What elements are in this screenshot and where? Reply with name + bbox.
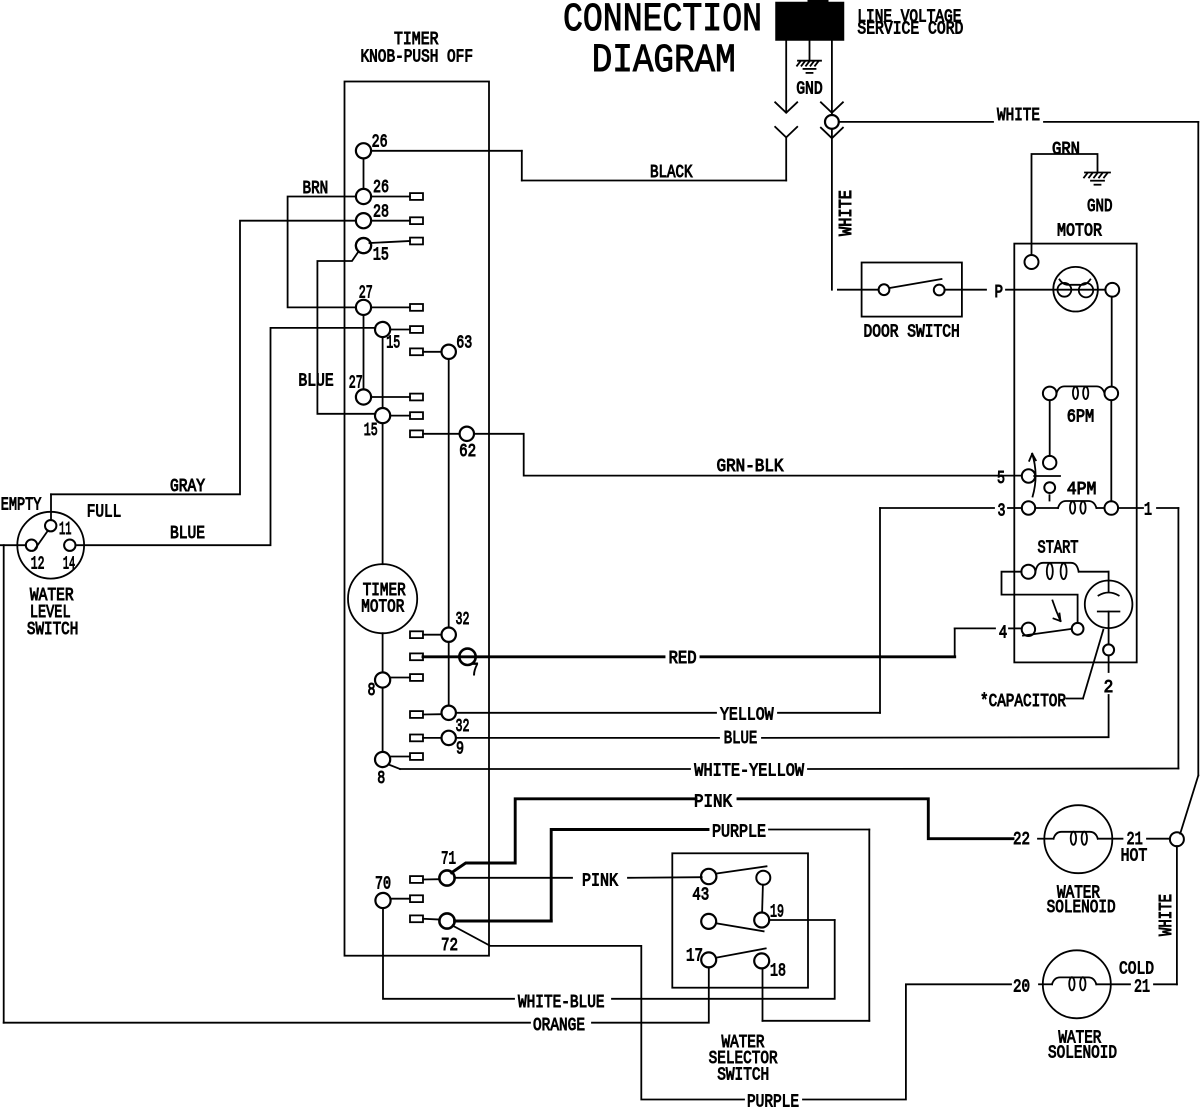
svg-text:DOOR SWITCH: DOOR SWITCH [864,323,960,343]
svg-text:GRAY: GRAY [170,477,205,497]
svg-text:21: 21 [1134,978,1150,998]
svg-text:SOLENOID: SOLENOID [1047,898,1116,918]
svg-text:BLUE: BLUE [170,524,205,544]
svg-text:COLD: COLD [1119,960,1154,980]
svg-text:71: 71 [441,850,456,870]
svg-text:PINK: PINK [582,872,618,892]
svg-text:26: 26 [372,133,388,153]
svg-text:PURPLE: PURPLE [712,823,766,843]
svg-text:70: 70 [375,875,391,895]
svg-text:SWITCH: SWITCH [717,1066,769,1086]
svg-text:11: 11 [59,520,71,540]
svg-text:9: 9 [456,740,464,760]
svg-text:BLUE: BLUE [298,372,333,392]
svg-text:ORANGE: ORANGE [533,1016,585,1036]
svg-text:START: START [1038,539,1079,559]
svg-text:8: 8 [377,769,385,789]
svg-text:43: 43 [692,886,709,906]
svg-text:26: 26 [373,178,389,198]
svg-text:8: 8 [368,681,376,701]
svg-text:27: 27 [359,284,373,304]
svg-text:SERVICE CORD: SERVICE CORD [857,20,963,40]
svg-text:PURPLE: PURPLE [747,1093,799,1108]
svg-text:SOLENOID: SOLENOID [1048,1044,1117,1064]
svg-text:32: 32 [456,610,470,630]
svg-text:5: 5 [997,469,1005,489]
svg-text:FULL: FULL [87,503,122,523]
svg-text:MOTOR: MOTOR [361,598,404,618]
svg-text:EMPTY: EMPTY [1,496,42,516]
svg-text:BLUE: BLUE [724,729,758,749]
svg-text:1: 1 [1144,501,1152,521]
svg-text:32: 32 [456,717,470,737]
svg-text:17: 17 [686,947,703,967]
svg-text:12: 12 [31,555,45,575]
svg-text:WHITE: WHITE [837,190,857,236]
svg-text:15: 15 [364,421,378,441]
svg-text:28: 28 [373,203,389,223]
svg-text:4PM: 4PM [1067,480,1097,500]
svg-text:4: 4 [999,624,1008,644]
svg-text:GND: GND [796,80,823,100]
svg-text:62: 62 [459,442,476,462]
svg-text:27: 27 [349,374,363,394]
svg-text:22: 22 [1013,830,1030,850]
svg-text:BRN: BRN [303,179,329,199]
svg-text:HOT: HOT [1121,847,1148,867]
svg-text:CONNECTION: CONNECTION [563,0,762,43]
svg-text:72: 72 [441,936,458,956]
svg-text:YELLOW: YELLOW [720,706,774,726]
svg-text:15: 15 [373,246,389,266]
svg-text:18: 18 [770,962,786,982]
svg-text:WHITE: WHITE [1157,894,1177,936]
svg-text:DIAGRAM: DIAGRAM [592,39,736,84]
svg-text:GRN-BLK: GRN-BLK [717,457,784,477]
svg-text:15: 15 [386,334,400,354]
svg-text:P: P [995,283,1004,303]
svg-text:19: 19 [770,903,784,923]
svg-text:3: 3 [998,502,1006,522]
svg-text:RED: RED [669,649,697,669]
svg-text:6PM: 6PM [1067,408,1095,428]
svg-text:*CAPACITOR: *CAPACITOR [980,692,1066,712]
svg-text:SWITCH: SWITCH [27,620,78,640]
svg-text:GND: GND [1087,197,1113,217]
svg-text:WHITE: WHITE [997,106,1040,126]
svg-text:BLACK: BLACK [650,163,693,183]
svg-text:GRN: GRN [1052,140,1080,160]
svg-text:20: 20 [1013,978,1030,998]
svg-text:14: 14 [63,555,75,575]
svg-text:WHITE-BLUE: WHITE-BLUE [518,993,605,1013]
svg-text:WHITE-YELLOW: WHITE-YELLOW [694,762,804,782]
svg-text:PINK: PINK [694,793,732,813]
svg-text:63: 63 [456,334,472,354]
svg-text:7: 7 [471,661,479,681]
svg-text:MOTOR: MOTOR [1057,222,1102,242]
svg-text:KNOB-PUSH OFF: KNOB-PUSH OFF [361,48,474,68]
